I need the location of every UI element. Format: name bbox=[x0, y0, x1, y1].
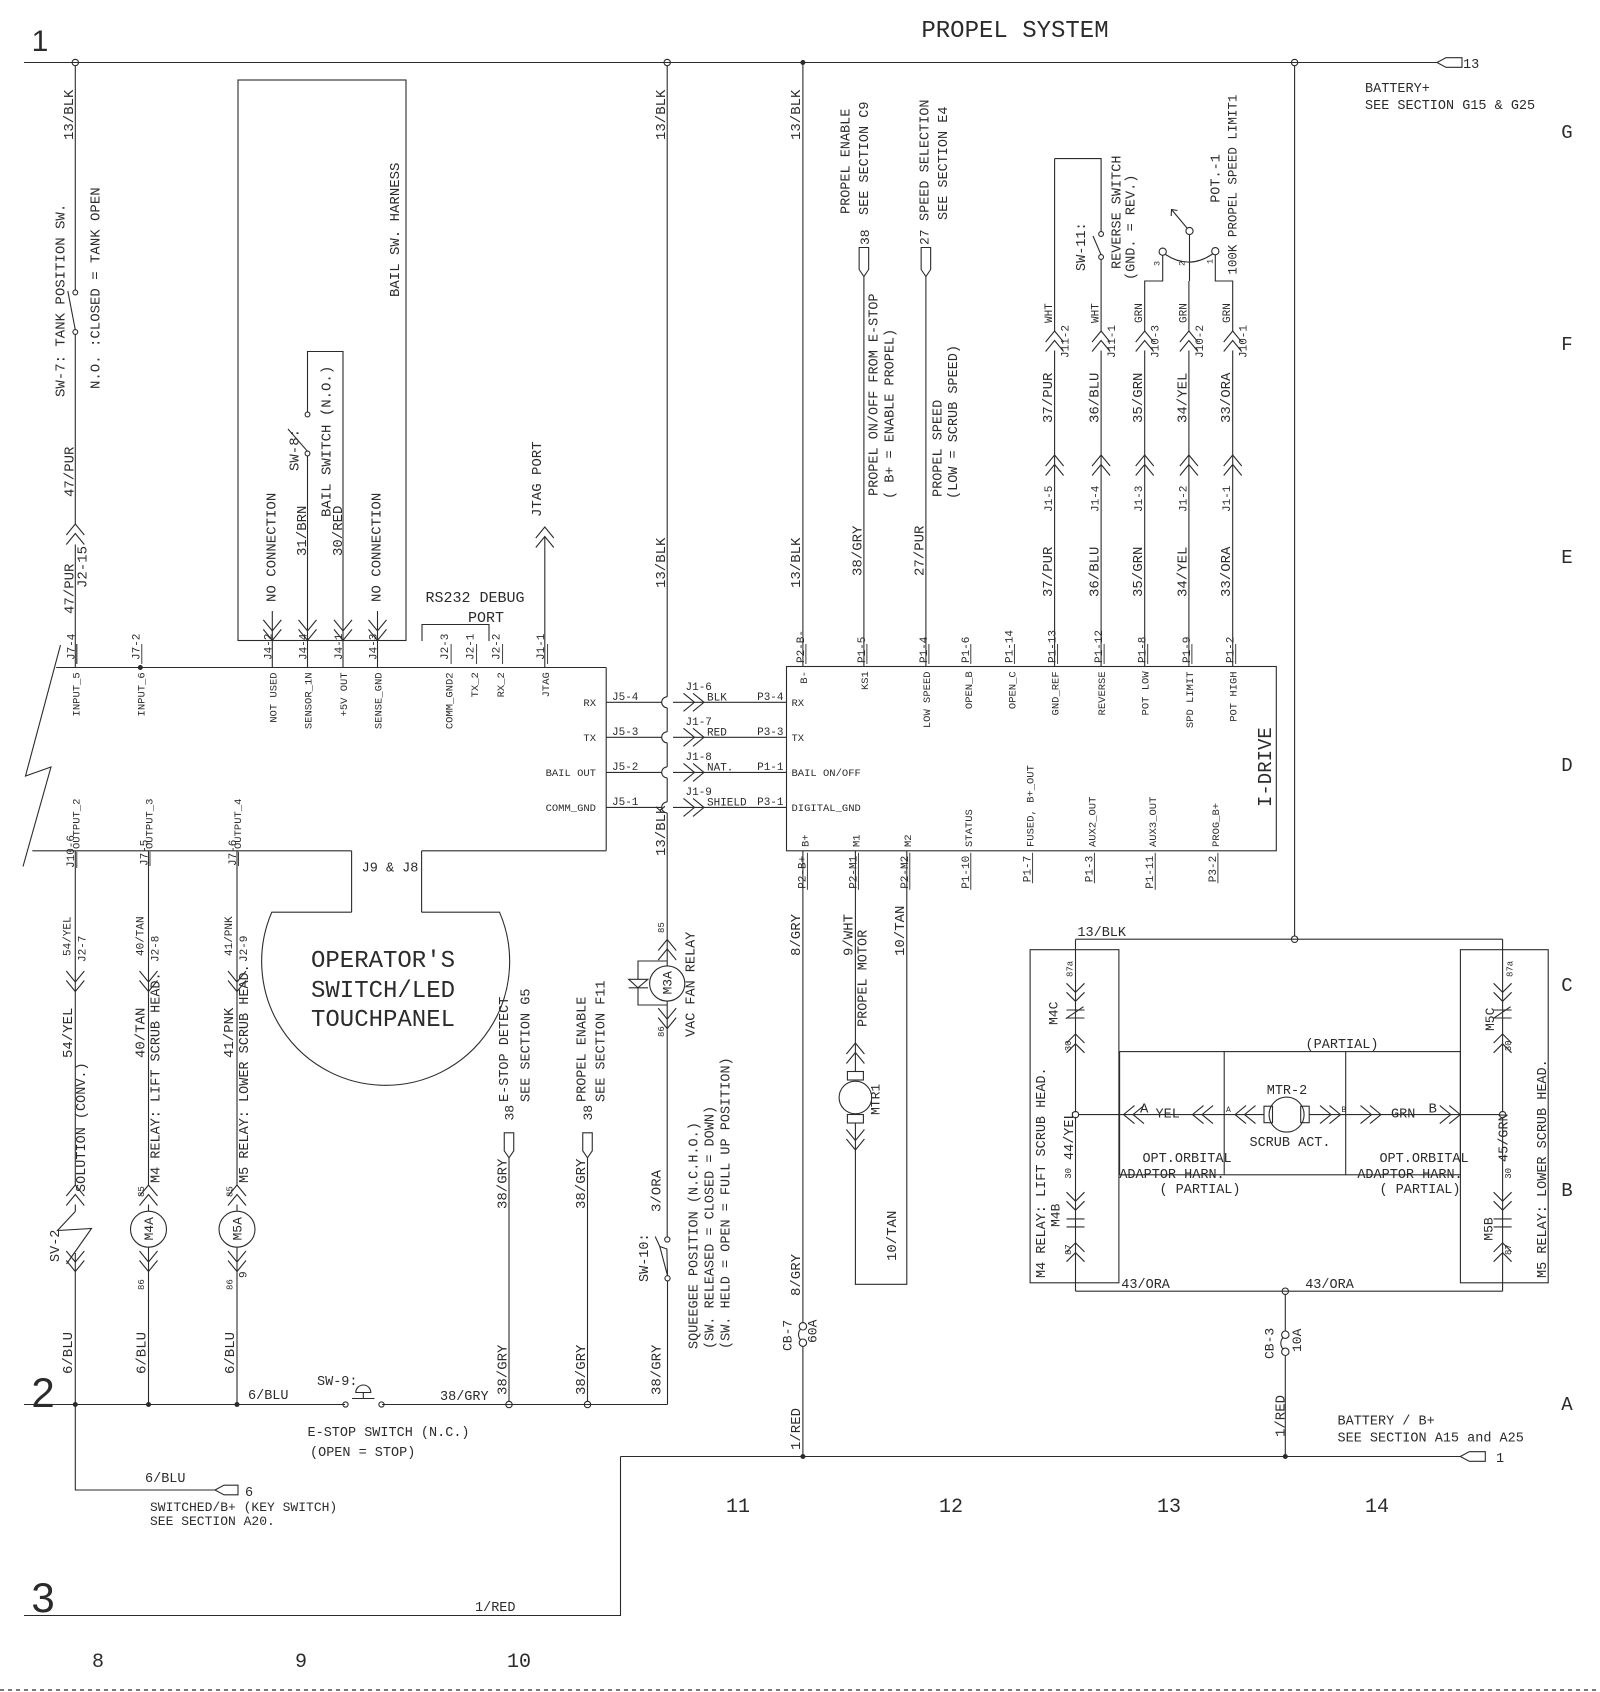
connector J11-1 chevrons bbox=[1092, 331, 1110, 342]
svg-text:P3-1: P3-1 bbox=[757, 797, 784, 809]
svg-text:M5 RELAY: LOWER SCRUB HEAD.: M5 RELAY: LOWER SCRUB HEAD. bbox=[238, 964, 253, 1183]
connector chevrons J1-6 bbox=[693, 693, 704, 711]
svg-text:87a: 87a bbox=[1066, 960, 1076, 977]
svg-text:33/ORA: 33/ORA bbox=[1219, 372, 1235, 423]
svg-text:40/TAN: 40/TAN bbox=[136, 916, 148, 956]
svg-text:MTR1: MTR1 bbox=[869, 1084, 884, 1115]
connector J10-3 chevrons bbox=[1136, 331, 1154, 342]
svg-text:J4-3: J4-3 bbox=[369, 634, 381, 660]
svg-text:34/YEL: 34/YEL bbox=[1175, 373, 1191, 423]
svg-text:J10-3: J10-3 bbox=[1151, 325, 1163, 358]
svg-text:OPERATOR'S: OPERATOR'S bbox=[311, 948, 455, 975]
svg-text:1/RED: 1/RED bbox=[789, 1408, 805, 1450]
svg-text:13/BLK: 13/BLK bbox=[654, 537, 670, 588]
terminal lug 38 propel enable F11 bbox=[583, 1133, 593, 1158]
connector J1-3 chevrons bbox=[1136, 455, 1154, 466]
svg-text:BAIL SWITCH (N.O.): BAIL SWITCH (N.O.) bbox=[320, 366, 336, 517]
svg-text:85: 85 bbox=[226, 1186, 236, 1197]
svg-text:SW-9:: SW-9: bbox=[317, 1375, 358, 1390]
svg-text:RX: RX bbox=[583, 698, 596, 710]
svg-text:WHT: WHT bbox=[1044, 303, 1056, 323]
motor MTR-2 scrub actuator bbox=[1264, 1106, 1273, 1123]
junction top bus / 13BLK I-Drive branch bbox=[801, 61, 805, 65]
svg-text:SW-11:: SW-11: bbox=[1075, 222, 1090, 271]
svg-text:60A: 60A bbox=[806, 1319, 821, 1343]
connector chevrons J1-7 bbox=[693, 728, 704, 746]
node top bus / 13BLK center branch bbox=[664, 59, 670, 65]
svg-text:43/ORA: 43/ORA bbox=[1305, 1278, 1355, 1293]
svg-text:12: 12 bbox=[939, 1496, 963, 1519]
svg-text:PROG_B+: PROG_B+ bbox=[1211, 803, 1223, 847]
svg-text:J11-1: J11-1 bbox=[1107, 325, 1119, 358]
svg-text:13: 13 bbox=[1157, 1496, 1181, 1519]
svg-text:SEE SECTION G5: SEE SECTION G5 bbox=[520, 989, 535, 1102]
svg-text:SENSOR_1N: SENSOR_1N bbox=[304, 672, 316, 729]
connector chevrons below SV-2 bbox=[66, 1261, 84, 1272]
terminal lug 13 battery+ bbox=[1437, 58, 1462, 68]
svg-text:37/PUR: 37/PUR bbox=[1041, 546, 1057, 597]
svg-text:37/PUR: 37/PUR bbox=[1041, 372, 1057, 423]
svg-text:J9 & J8: J9 & J8 bbox=[362, 862, 419, 877]
svg-text:41/PNK: 41/PNK bbox=[224, 916, 236, 956]
svg-text:OUTPUT_2: OUTPUT_2 bbox=[71, 799, 83, 849]
svg-text:PROPEL SYSTEM: PROPEL SYSTEM bbox=[921, 18, 1108, 45]
svg-text:35/GRN: 35/GRN bbox=[1131, 547, 1147, 597]
svg-text:N.O. :CLOSED = TANK OPEN: N.O. :CLOSED = TANK OPEN bbox=[89, 187, 105, 389]
svg-text:M3A: M3A bbox=[661, 971, 676, 995]
wire OUTPUT_2 54/YEL bbox=[74, 851, 76, 1185]
switch SW-7 tank position bbox=[73, 290, 78, 295]
svg-text:BATTERY / B+: BATTERY / B+ bbox=[1338, 1415, 1435, 1430]
component box touchpanel controller bbox=[56, 667, 606, 669]
node top bus / scrub head branch bbox=[1291, 59, 1297, 65]
svg-text:GRN: GRN bbox=[1134, 303, 1146, 323]
wire 8/GRY I-Drive B+ to CB-7 bbox=[802, 851, 804, 1323]
svg-text:POT LOW: POT LOW bbox=[1141, 671, 1153, 716]
wire 47/PUR below SW-7 bbox=[74, 334, 76, 524]
svg-text:J4-1: J4-1 bbox=[334, 633, 346, 660]
svg-text:1/RED: 1/RED bbox=[1274, 1395, 1290, 1437]
wire 37/PUR from SW-11 bracket bbox=[1054, 159, 1056, 331]
potentiometer POT.-1 100K bbox=[1159, 248, 1166, 255]
connector chevrons MTR1 top bbox=[846, 1043, 864, 1054]
svg-text:6/BLU: 6/BLU bbox=[223, 1332, 239, 1374]
wire JTAG port J1-1 bbox=[544, 537, 546, 668]
svg-text:38: 38 bbox=[581, 1105, 596, 1121]
svg-text:10/TAN: 10/TAN bbox=[893, 906, 909, 956]
connector J11-2 chevrons bbox=[1046, 331, 1064, 342]
svg-text:13/BLK: 13/BLK bbox=[789, 537, 805, 588]
connector J2-9 chevrons bbox=[228, 981, 246, 992]
wire 13/BLK scrub head top bbox=[1294, 66, 1296, 936]
svg-text:I-DRIVE: I-DRIVE bbox=[1255, 727, 1277, 807]
svg-text:6/BLU: 6/BLU bbox=[248, 1389, 289, 1404]
svg-text:SEE SECTION A20.: SEE SECTION A20. bbox=[150, 1514, 275, 1529]
svg-text:INPUT_5: INPUT_5 bbox=[71, 672, 83, 716]
connector chevrons JTAG bbox=[536, 527, 554, 538]
svg-text:OPEN_C: OPEN_C bbox=[1007, 671, 1019, 709]
connector chevrons above M5A bbox=[228, 1185, 246, 1196]
node e-stop bus junction col 1 bbox=[506, 1401, 512, 1407]
svg-text:NOT USED: NOT USED bbox=[268, 672, 280, 722]
svg-text:86: 86 bbox=[657, 1026, 667, 1037]
junction e-stop bus col SV-2 bbox=[73, 1403, 77, 1407]
wire 38/GRY propel enable F11 bbox=[587, 1158, 589, 1402]
wire 13/BLK top bus bbox=[24, 62, 1437, 64]
svg-text:A: A bbox=[1561, 1394, 1573, 1416]
junction battery bus / CB-7 bbox=[801, 1455, 805, 1459]
svg-text:9/WHT: 9/WHT bbox=[842, 914, 858, 956]
connector chevrons above SV-2 bbox=[66, 1185, 84, 1196]
svg-text:JTAG: JTAG bbox=[541, 672, 553, 697]
svg-text:COMM_GND2: COMM_GND2 bbox=[445, 672, 457, 729]
svg-text:REVERSE: REVERSE bbox=[1097, 671, 1109, 715]
connector J2-8 chevrons bbox=[140, 981, 158, 992]
wire J1-8 NAT. serial row bbox=[606, 771, 662, 773]
svg-text:RS232 DEBUG: RS232 DEBUG bbox=[425, 590, 524, 607]
svg-text:SEE SECTION F11: SEE SECTION F11 bbox=[595, 980, 610, 1102]
node 44/YEL junction bbox=[1072, 1111, 1078, 1117]
terminal lug 6 switched B+ bbox=[215, 1485, 238, 1495]
svg-text:38/GRY: 38/GRY bbox=[440, 1390, 489, 1405]
svg-text:87a: 87a bbox=[1506, 960, 1516, 977]
connector J2-7 chevrons bbox=[66, 981, 84, 992]
wire battery B+ bus bbox=[621, 1456, 1461, 1458]
connector chevrons J4-3 bbox=[369, 629, 387, 640]
component box M5 relay contacts bbox=[1460, 950, 1548, 1283]
svg-text:PROPEL ENABLE: PROPEL ENABLE bbox=[840, 109, 855, 214]
svg-text:WHT: WHT bbox=[1091, 303, 1103, 323]
svg-text:G: G bbox=[1561, 122, 1572, 144]
svg-text:86: 86 bbox=[226, 1279, 236, 1290]
svg-text:BAIL ON/OFF: BAIL ON/OFF bbox=[792, 768, 861, 780]
svg-text:40/TAN: 40/TAN bbox=[133, 1008, 149, 1058]
svg-text:(OPEN = STOP): (OPEN = STOP) bbox=[310, 1446, 415, 1461]
wire J1-9 SHIELD serial row bbox=[606, 806, 662, 808]
node top bus / SW-7 branch bbox=[72, 59, 78, 65]
no connection stub J4-3 bbox=[377, 611, 379, 640]
wire 27/PUR propel speed bbox=[925, 277, 927, 667]
node 43/ORA / CB-3 branch bbox=[1282, 1288, 1288, 1294]
svg-text:10: 10 bbox=[507, 1651, 531, 1674]
svg-text:2: 2 bbox=[1178, 261, 1188, 266]
wire J4-3 to touchpanel bbox=[377, 640, 379, 667]
svg-text:GND_REF: GND_REF bbox=[1051, 671, 1063, 715]
svg-text:10/TAN: 10/TAN bbox=[885, 1211, 901, 1261]
svg-text:SEE SECTION E4: SEE SECTION E4 bbox=[937, 107, 952, 220]
svg-text:RX: RX bbox=[792, 698, 805, 710]
svg-text:13/BLK: 13/BLK bbox=[789, 89, 805, 140]
svg-text:38/GRY: 38/GRY bbox=[496, 1344, 512, 1395]
svg-text:J1-3: J1-3 bbox=[1134, 486, 1146, 512]
node e-stop bus junction col 2 bbox=[584, 1401, 590, 1407]
svg-text:J2-7: J2-7 bbox=[78, 936, 90, 962]
motor MTR1 propel motor bbox=[847, 1072, 863, 1081]
svg-text:E: E bbox=[1561, 547, 1572, 569]
relay coil M5A lower scrub head bbox=[236, 1205, 238, 1212]
wire 31/BRN bbox=[307, 456, 309, 641]
svg-text:43/ORA: 43/ORA bbox=[1121, 1278, 1171, 1293]
connector J10-1 chevrons bbox=[1224, 331, 1242, 342]
svg-text:TOUCHPANEL: TOUCHPANEL bbox=[311, 1007, 455, 1034]
svg-text:J2-3: J2-3 bbox=[440, 634, 452, 660]
svg-text:38/GRY: 38/GRY bbox=[574, 1344, 590, 1395]
relay coil M4A lift scrub head bbox=[148, 1205, 150, 1212]
svg-text:BAIL SW. HARNESS: BAIL SW. HARNESS bbox=[388, 163, 404, 297]
svg-text:J1-4: J1-4 bbox=[1091, 485, 1103, 512]
svg-text:ADAPTOR HARN.: ADAPTOR HARN. bbox=[1357, 1168, 1462, 1183]
svg-text:POT.-1: POT.-1 bbox=[1209, 154, 1224, 203]
svg-text:+5V OUT: +5V OUT bbox=[339, 672, 351, 716]
svg-text:SW-10:: SW-10: bbox=[638, 1233, 653, 1282]
svg-text:36/BLU: 36/BLU bbox=[1088, 373, 1104, 423]
svg-text:J1-1: J1-1 bbox=[1222, 485, 1234, 512]
svg-text:OPT.ORBITAL: OPT.ORBITAL bbox=[1379, 1152, 1468, 1167]
connector chevrons J1-8 bbox=[693, 763, 704, 781]
svg-text:FUSED, B+_OUT: FUSED, B+_OUT bbox=[1026, 765, 1038, 847]
svg-text:3: 3 bbox=[1153, 261, 1163, 266]
svg-text:M5B: M5B bbox=[1482, 1217, 1497, 1241]
relay contact M4B bbox=[1075, 1117, 1077, 1291]
svg-text:13/BLK: 13/BLK bbox=[62, 89, 78, 140]
svg-text:J2-8: J2-8 bbox=[151, 936, 163, 962]
svg-text:A: A bbox=[1140, 1101, 1149, 1117]
wire J1-7 RED serial row bbox=[606, 736, 662, 738]
svg-text:M4 RELAY: LIFT SCRUB HEAD.: M4 RELAY: LIFT SCRUB HEAD. bbox=[1035, 1067, 1050, 1278]
svg-text:M5A: M5A bbox=[231, 1217, 246, 1241]
svg-text:DIGITAL_GND: DIGITAL_GND bbox=[792, 803, 861, 815]
svg-text:( PARTIAL): ( PARTIAL) bbox=[1379, 1183, 1460, 1198]
svg-text:A: A bbox=[1226, 1106, 1231, 1115]
svg-text:SPD LIMIT: SPD LIMIT bbox=[1185, 671, 1197, 728]
svg-text:GRN: GRN bbox=[1178, 303, 1190, 323]
svg-text:C: C bbox=[1561, 975, 1572, 997]
svg-text:PROPEL MOTOR: PROPEL MOTOR bbox=[857, 930, 872, 1027]
svg-text:B: B bbox=[1561, 1180, 1572, 1202]
svg-text:13/BLK: 13/BLK bbox=[654, 805, 670, 856]
circuit breaker CB-7 60A bbox=[799, 1323, 806, 1330]
svg-text:2: 2 bbox=[31, 1369, 54, 1416]
svg-text:E-STOP DETECT: E-STOP DETECT bbox=[498, 997, 513, 1102]
svg-text:M4A: M4A bbox=[142, 1217, 157, 1241]
svg-text:54/YEL: 54/YEL bbox=[61, 1008, 77, 1058]
svg-text:M4B: M4B bbox=[1049, 1203, 1064, 1227]
relay contact M4C bbox=[1075, 939, 1077, 1112]
wire e-stop bus 6/BLU 38/GRY bbox=[24, 1404, 345, 1406]
relay coil M3A vac fan relay bbox=[658, 940, 676, 951]
connector J1-5 chevrons bbox=[1046, 455, 1064, 466]
svg-text:54/YEL: 54/YEL bbox=[63, 916, 75, 956]
wire J4-2 to touchpanel bbox=[271, 640, 273, 667]
svg-text:30/RED: 30/RED bbox=[331, 506, 347, 556]
svg-text:SWITCH/LED: SWITCH/LED bbox=[311, 978, 455, 1005]
svg-text:38: 38 bbox=[503, 1105, 518, 1121]
wire 10/TAN MTR1 loop bbox=[855, 851, 906, 1285]
svg-text:6/BLU: 6/BLU bbox=[61, 1332, 77, 1374]
switch SW-8 bail switch bbox=[308, 352, 344, 641]
svg-text:AUX2_OUT: AUX2_OUT bbox=[1087, 797, 1099, 847]
wire 43/ORA bus bbox=[1076, 1290, 1503, 1292]
svg-text:J2-1: J2-1 bbox=[466, 633, 478, 660]
svg-text:E-STOP SWITCH (N.C.): E-STOP SWITCH (N.C.) bbox=[308, 1426, 470, 1441]
svg-text:(GND. = REV.): (GND. = REV.) bbox=[1125, 175, 1140, 280]
svg-text:B+: B+ bbox=[800, 834, 812, 847]
svg-text:30: 30 bbox=[1064, 1040, 1074, 1051]
connector chevrons J4-2 bbox=[263, 629, 281, 640]
svg-text:D: D bbox=[1561, 755, 1572, 777]
terminal lug 27 speed selection bbox=[921, 248, 931, 277]
wire pot terminal 3 to 35/GRN bbox=[1145, 255, 1163, 331]
node 45/GRN junction bbox=[1499, 1111, 1505, 1117]
svg-text:13/BLK: 13/BLK bbox=[1077, 926, 1127, 941]
svg-text:J10-2: J10-2 bbox=[1195, 325, 1207, 358]
component box BAIL SW. HARNESS bbox=[238, 80, 406, 641]
svg-text:TX: TX bbox=[792, 733, 805, 745]
svg-text:INPUT_6: INPUT_6 bbox=[136, 672, 148, 716]
svg-text:33/ORA: 33/ORA bbox=[1219, 546, 1235, 597]
svg-text:KS1: KS1 bbox=[860, 671, 872, 690]
wire 47/PUR to touchpanel J7-4 bbox=[74, 545, 76, 668]
svg-text:38/GRY: 38/GRY bbox=[851, 525, 867, 576]
svg-text:13: 13 bbox=[1463, 58, 1479, 73]
solenoid SV-2 bbox=[74, 1205, 76, 1212]
svg-text:VAC FAN RELAY: VAC FAN RELAY bbox=[685, 932, 700, 1037]
break mark left edge bbox=[23, 645, 61, 867]
svg-text:COMM_GND: COMM_GND bbox=[546, 803, 596, 815]
svg-text:27: 27 bbox=[918, 229, 933, 245]
svg-text:SENSE_GND: SENSE_GND bbox=[374, 672, 386, 729]
svg-text:1: 1 bbox=[32, 25, 49, 58]
wire 38/GRY SW-10 to e-stop bus bbox=[667, 1281, 669, 1405]
svg-text:SWITCHED/B+ (KEY SWITCH): SWITCHED/B+ (KEY SWITCH) bbox=[150, 1500, 337, 1515]
svg-text:34/YEL: 34/YEL bbox=[1175, 547, 1191, 597]
svg-text:8: 8 bbox=[92, 1651, 104, 1674]
svg-text:3: 3 bbox=[31, 1574, 54, 1621]
wire 13/BLK from bus to SW-7 bbox=[74, 66, 76, 290]
wire 6/BLU M4A to e-stop bus bbox=[148, 1252, 150, 1405]
svg-text:35/GRN: 35/GRN bbox=[1131, 373, 1147, 423]
svg-text:B-: B- bbox=[799, 671, 811, 684]
svg-text:J1-1: J1-1 bbox=[536, 633, 548, 660]
svg-text:14: 14 bbox=[1365, 1496, 1389, 1519]
connector J10-2 chevrons bbox=[1180, 331, 1198, 342]
wire 43/ORA to CB-3 bbox=[1284, 1294, 1286, 1331]
terminal lug 38 propel enable bbox=[859, 248, 869, 277]
wire 6/BLU M5A to e-stop bus bbox=[236, 1252, 238, 1405]
relay contact M5B bbox=[1502, 1117, 1504, 1291]
svg-text:RED: RED bbox=[707, 727, 727, 739]
svg-text:OUTPUT_3: OUTPUT_3 bbox=[145, 799, 157, 849]
component OPERATOR'S SWITCH/LED TOUCHPANEL circle bbox=[262, 912, 510, 1085]
wire OUTPUT_3 40/TAN bbox=[148, 851, 150, 1185]
svg-text:86: 86 bbox=[137, 1279, 147, 1290]
svg-text:M5C: M5C bbox=[1483, 1007, 1498, 1031]
bracket RS232 port bbox=[422, 625, 489, 642]
wire 38/GRY e-stop detect bbox=[508, 1158, 510, 1402]
svg-text:P1-1: P1-1 bbox=[757, 762, 784, 774]
terminal lug 38 e-stop detect bbox=[504, 1133, 514, 1158]
connector chevrons J1-9 bbox=[693, 798, 704, 816]
connector chevrons J4-4 bbox=[299, 629, 317, 640]
svg-text:J1-2: J1-2 bbox=[1178, 486, 1190, 512]
svg-text:38/GRY: 38/GRY bbox=[574, 1158, 590, 1209]
wire 1/RED row3 bbox=[24, 1457, 621, 1616]
svg-text:BATTERY+: BATTERY+ bbox=[1365, 82, 1430, 97]
wire 35/GRN bbox=[1144, 351, 1146, 667]
svg-text:P3-4: P3-4 bbox=[757, 692, 784, 704]
wire pot terminal 1 to 33/ORA bbox=[1215, 255, 1232, 331]
svg-text:REVERSE SWITCH: REVERSE SWITCH bbox=[1111, 156, 1126, 269]
svg-text:8/GRY: 8/GRY bbox=[789, 913, 805, 956]
component box I-DRIVE U1 bbox=[787, 667, 1277, 851]
svg-text:SEE SECTION A15 and A25: SEE SECTION A15 and A25 bbox=[1338, 1432, 1524, 1447]
svg-text:SQUEEGEE POSITION (N.C.H.O.): SQUEEGEE POSITION (N.C.H.O.) bbox=[688, 1122, 703, 1349]
no connection stub J4-2 bbox=[271, 611, 273, 640]
svg-text:M4 RELAY: LIFT SCRUB HEAD.: M4 RELAY: LIFT SCRUB HEAD. bbox=[150, 972, 165, 1183]
svg-text:SW-7: TANK POSITION SW.: SW-7: TANK POSITION SW. bbox=[54, 204, 70, 397]
svg-text:SPEED SELECTION: SPEED SELECTION bbox=[919, 99, 934, 221]
svg-text:P3-3: P3-3 bbox=[757, 727, 783, 739]
wire 37/PUR bbox=[1054, 351, 1056, 667]
svg-text:J11-2: J11-2 bbox=[1061, 325, 1073, 358]
svg-text:6/BLU: 6/BLU bbox=[134, 1332, 150, 1374]
svg-text:87: 87 bbox=[1064, 1244, 1074, 1255]
svg-text:AUX3_OUT: AUX3_OUT bbox=[1148, 797, 1160, 847]
svg-text:(SW. RELEASED = CLOSED = DOWN): (SW. RELEASED = CLOSED = DOWN) bbox=[704, 1106, 719, 1349]
svg-text:31/BRN: 31/BRN bbox=[295, 506, 311, 556]
svg-text:6: 6 bbox=[245, 1486, 253, 1501]
svg-text:30: 30 bbox=[1504, 1168, 1514, 1179]
node scrub top / 13BLK bbox=[1291, 936, 1297, 942]
svg-text:POT HIGH: POT HIGH bbox=[1229, 671, 1241, 721]
svg-text:27/PUR: 27/PUR bbox=[913, 525, 929, 576]
wire 1/RED CB-7 to battery bus bbox=[802, 1346, 804, 1456]
svg-text:87: 87 bbox=[1504, 1244, 1514, 1255]
svg-text:85: 85 bbox=[657, 922, 667, 933]
relay contact M5C bbox=[1502, 939, 1504, 1112]
svg-text:13/BLK: 13/BLK bbox=[654, 89, 670, 140]
svg-text:8/GRY: 8/GRY bbox=[789, 1253, 805, 1296]
svg-text:85: 85 bbox=[137, 1186, 147, 1197]
connector chevrons J4-1 bbox=[334, 629, 352, 640]
svg-text:6/BLU: 6/BLU bbox=[145, 1472, 186, 1487]
svg-text:TX: TX bbox=[583, 733, 596, 745]
svg-text:LOW SPEED: LOW SPEED bbox=[922, 671, 934, 728]
component box orbital adaptor harness bbox=[1120, 1052, 1461, 1175]
svg-text:CB-7: CB-7 bbox=[781, 1320, 796, 1351]
svg-text:BAIL OUT: BAIL OUT bbox=[546, 768, 596, 780]
svg-text:OPT.ORBITAL: OPT.ORBITAL bbox=[1142, 1152, 1231, 1167]
svg-text:45/GRN: 45/GRN bbox=[1498, 1113, 1513, 1162]
svg-text:( B+ = ENABLE PROPEL): ( B+ = ENABLE PROPEL) bbox=[884, 329, 899, 499]
switch SW-10 squeegee position bbox=[665, 1237, 670, 1242]
svg-text:41/PNK: 41/PNK bbox=[222, 1007, 238, 1058]
wire J4-1 to touchpanel bbox=[342, 640, 344, 667]
svg-text:STATUS: STATUS bbox=[964, 809, 976, 847]
svg-text:M2: M2 bbox=[903, 834, 915, 847]
svg-text:30: 30 bbox=[1504, 1040, 1514, 1051]
svg-text:M5 RELAY: LOWER SCRUB HEAD.: M5 RELAY: LOWER SCRUB HEAD. bbox=[1536, 1059, 1551, 1278]
svg-text:38/GRY: 38/GRY bbox=[650, 1344, 666, 1395]
svg-text:38/GRY: 38/GRY bbox=[496, 1158, 512, 1209]
svg-text:J2-2: J2-2 bbox=[492, 634, 504, 660]
svg-text:( PARTIAL): ( PARTIAL) bbox=[1159, 1183, 1240, 1198]
wire 36/BLU bbox=[1100, 351, 1102, 667]
terminal lug 1 battery bbox=[1460, 1452, 1485, 1462]
svg-text:J4-2: J4-2 bbox=[263, 634, 275, 660]
svg-text:NO CONNECTION: NO CONNECTION bbox=[370, 493, 386, 602]
svg-text:3/ORA: 3/ORA bbox=[650, 1169, 666, 1212]
